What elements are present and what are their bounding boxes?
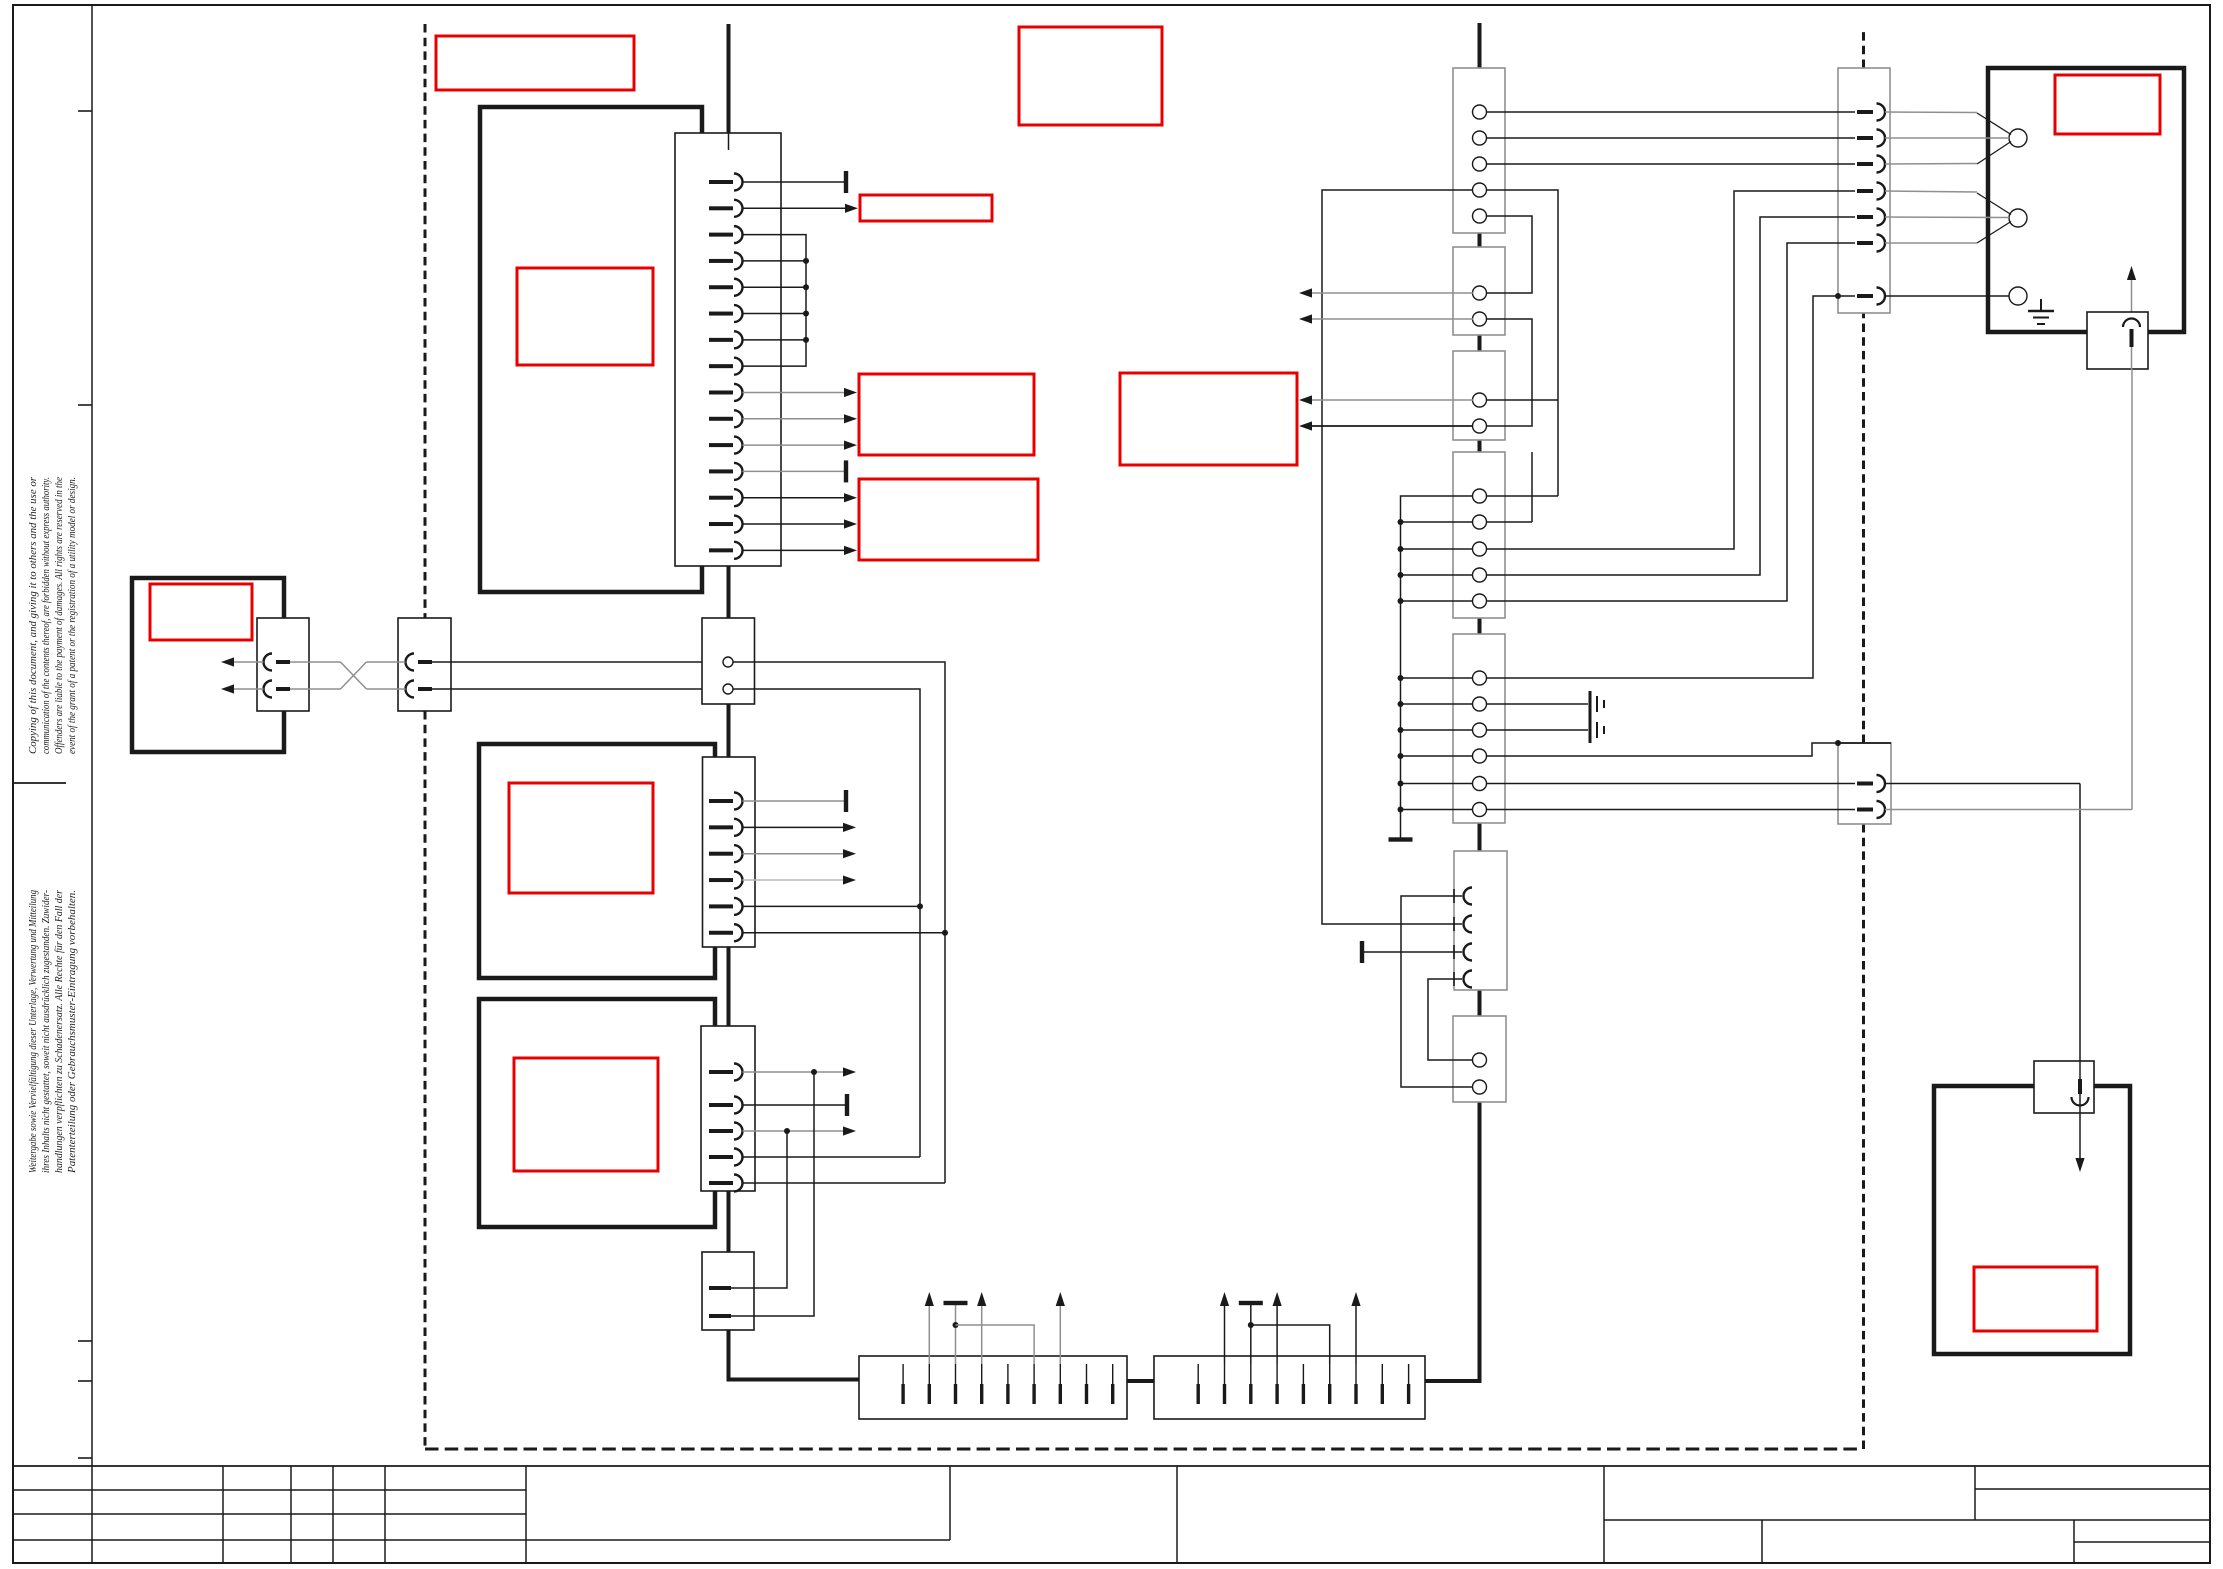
wire X8b pin2 to arrow <box>1307 318 1473 320</box>
device box B1 (left, with display) <box>132 578 284 752</box>
speaker unit box B10 (top right) <box>1988 68 2184 332</box>
connector X12 pins 1-2 <box>1857 775 1885 818</box>
wire X6 pin3 to terminal <box>955 1305 957 1364</box>
wire X9 pin4 to X10 pin1 <box>1428 979 1472 1060</box>
terminal bar X7 pin3 <box>1239 1301 1263 1305</box>
junction dot X8e pin6 <box>1398 807 1404 813</box>
sidebar divider line <box>91 5 93 1563</box>
wire X4 pin1 to arrow <box>743 1071 844 1073</box>
wire X8d pin3 to X11 pin4 <box>1401 191 1856 549</box>
arrow X4 pin3 <box>843 1126 856 1135</box>
wire X4 pin3 to arrow <box>743 1130 844 1132</box>
connector X8a body <box>1453 68 1505 233</box>
connector X1 pins 1-15 <box>709 174 743 559</box>
terminal bar X3 pin1 <box>844 790 848 812</box>
arrow X7 pin2 <box>1220 1292 1229 1306</box>
junction dot X4 pin3 <box>784 1128 790 1134</box>
wire W2 down <box>2131 347 2133 369</box>
wire X8c pin1 to arrow <box>1307 399 1473 401</box>
red highlight box at X1 pin2 <box>860 195 992 221</box>
junction dot X3 pin6 <box>942 930 948 936</box>
arrow into W1 <box>2075 1158 2084 1172</box>
wire X8e pin5 to X12 pin1 <box>1401 783 1856 785</box>
red highlight box (top left label) <box>436 36 634 90</box>
wire X2 pin2 right <box>733 689 920 1157</box>
junction dot X8e pin2 <box>1398 701 1404 707</box>
wire X3 pin1 to terminal <box>743 800 845 802</box>
wire X8c pin2 to arrow <box>1307 425 1473 427</box>
svg-text:ihres Inhalts nicht gestattet,: ihres Inhalts nicht gestattet, soweit ni… <box>41 890 52 1173</box>
arrow X3 pin3 <box>843 849 856 858</box>
connector X8c body <box>1453 351 1505 440</box>
antenna socket symbol W3 <box>2072 1079 2089 1106</box>
junction dots X1 bus <box>803 258 809 343</box>
sidebar tick mark y1458 <box>78 1457 92 1459</box>
wire X8e pin1 to X11 pin7 <box>1401 296 1856 678</box>
wire X1 pin12 to terminal <box>743 470 845 472</box>
junction dot X8e pin3 <box>1398 727 1404 733</box>
connector X8c pin circles <box>1473 393 1487 433</box>
connector X10 pin circles <box>1473 1053 1487 1094</box>
wire X11 pin5 stub <box>1885 216 2009 219</box>
wire X8a pin5 to X8b pin1 <box>1487 216 1533 293</box>
wire X3 pin4 to arrow <box>743 879 844 881</box>
connector X2a body (on B1) <box>257 618 309 711</box>
terminal bar X1 pin1 <box>844 171 848 193</box>
junction dot X4 pin1 <box>811 1069 817 1075</box>
bus wire from top into connector X1 <box>727 24 731 133</box>
bus wire X5 down to bottom strip X6 <box>729 1330 860 1380</box>
svg-text:Copying of this document, and: Copying of this document, and giving it … <box>28 477 39 754</box>
bus wire X1 to X2 <box>727 566 731 618</box>
arrow X1 pin11 <box>844 441 857 450</box>
junction dot X7 pin3 branch <box>1248 1322 1254 1328</box>
bus wire X8b-X8c <box>1478 335 1482 351</box>
connector X11 pins 1-7 <box>1857 104 1885 305</box>
arrow X7 pin7 <box>1351 1292 1360 1306</box>
wire X7 pin3 to terminal <box>1250 1305 1252 1364</box>
wire X8c pin1 right <box>1487 399 1559 401</box>
connector X8b pin circles <box>1473 286 1487 326</box>
connector X3 pins 1-6 <box>709 793 743 942</box>
wire X1 pin1 to terminal <box>743 181 845 183</box>
connector X11 body <box>1838 68 1890 313</box>
antenna unit box W1 (bottom right) <box>1934 1086 2130 1354</box>
device box A3 (middle left lower) <box>479 999 715 1227</box>
wire X8d pin4 to X11 pin5 <box>1401 217 1856 575</box>
bus wire X8c-X8d <box>1478 440 1482 452</box>
control unit box A1 (top left) <box>480 107 702 592</box>
wire X7 branch to pin6 <box>1251 1325 1330 1364</box>
junction dot X8d pin3 <box>1398 546 1404 552</box>
connector X3 body <box>703 757 756 947</box>
crossover wires X2a-X2b <box>290 662 406 689</box>
red highlight box at X1 pins13-15 <box>859 479 1038 560</box>
connector X9 pins 1-4 <box>1454 888 1472 988</box>
wire X5 pin2 <box>731 1072 814 1316</box>
wire X8e pin3 to earth <box>1401 729 1589 731</box>
wire X1 pin11 to arrow <box>743 444 846 446</box>
arrow X1 pin2 <box>845 204 858 213</box>
terminal bar X6 pin3 <box>944 1301 968 1305</box>
connector X5 pins <box>709 1286 731 1318</box>
antenna socket box W3 <box>2034 1061 2094 1113</box>
arrow at X8b pin2 <box>1299 314 1312 323</box>
junction dot X8e pin4 <box>1398 753 1404 759</box>
arrow at X8b pin1 <box>1299 288 1312 297</box>
arrow at X8c pin2 <box>1299 421 1312 430</box>
svg-text:Weitergabe sowie Vervielfältig: Weitergabe sowie Vervielfältigung dieser… <box>28 890 39 1173</box>
wire X11 pin4 stub <box>1885 191 1977 192</box>
connector X7 pins 1-9 <box>1198 1364 1408 1404</box>
arrow into B1 lower <box>221 684 234 693</box>
arrow X3 pin4 <box>843 875 856 884</box>
junction dot at X11 pin7 <box>1835 293 1841 299</box>
connector X8a pin circles <box>1473 105 1487 223</box>
junction dot X8d pin5 <box>1398 598 1404 604</box>
antenna feed arrow in B10 <box>2127 266 2136 316</box>
arrow X1 pin10 <box>844 414 857 423</box>
connector X2a pins <box>264 654 291 698</box>
bus wire X8a-X8b <box>1478 233 1482 247</box>
wire X3 pin2 to arrow <box>743 826 844 828</box>
wire loop X8a pin4 left branch <box>1322 190 1473 924</box>
connector X6 pins 1-9 <box>903 1364 1113 1404</box>
arrow X1 pin15 <box>844 546 857 555</box>
earth symbol upper <box>1590 691 1604 717</box>
wire X11 pin1 stub <box>1885 111 1977 114</box>
wire X7 pin7 up <box>1355 1306 1357 1364</box>
wire X8b pin1 to arrow <box>1307 292 1473 294</box>
red highlight box inside A2 <box>509 783 653 893</box>
wire X8b pin2 to X8c pin2 <box>1487 319 1533 426</box>
junction dot at X12 top <box>1835 740 1841 746</box>
connector X8b body <box>1453 247 1505 335</box>
sidebar text separator line <box>13 782 66 784</box>
wire X12 pin1 to W3 <box>1885 784 2080 1062</box>
wire X9 pin3 to terminal <box>1364 951 1462 953</box>
bus wire X8e-X9 <box>1478 823 1482 851</box>
wire X3 pin3 to arrow <box>743 853 844 855</box>
wire X1 pin10 to arrow <box>743 418 846 420</box>
connector X8e pin circles <box>1473 671 1487 817</box>
connector X2 pin circles <box>723 657 733 694</box>
dashed wiring-boundary box <box>425 24 1864 1449</box>
wire X8e pin4 to X12 top <box>1401 743 1839 756</box>
arrow X1 pin9 <box>844 388 857 397</box>
wire X1 pin14 to arrow <box>743 523 846 525</box>
bus wire X8d-X8e <box>1478 618 1482 634</box>
connector X8d body <box>1453 452 1505 618</box>
wire group X1 pins3-8 common bus <box>743 235 807 367</box>
arrow X7 pin4 <box>1273 1292 1282 1306</box>
wire X8e pin2 to earth <box>1401 703 1589 705</box>
antenna plug box W2 <box>2087 312 2148 369</box>
connector X8d pin circles <box>1473 489 1487 608</box>
bus wire X2 to X3 <box>727 704 731 758</box>
wire X11 pin6 stub <box>1885 242 1977 244</box>
connector X2 body (on bus) <box>702 618 755 704</box>
wire X4 pin2 to terminal <box>743 1104 846 1106</box>
connector X5 body <box>702 1252 754 1330</box>
arrow X1 pin14 <box>844 519 857 528</box>
connector X7 body <box>1154 1356 1425 1419</box>
svg-text:handlungen verpflichten zu Sch: handlungen verpflichten zu Schadenersatz… <box>54 890 65 1173</box>
sidebar tick mark y405 <box>78 404 92 406</box>
wire loop X8a pin4 right branch <box>1487 190 1559 496</box>
antenna plug symbol W2 <box>2123 319 2140 348</box>
device box A2 (middle left upper) <box>479 744 715 978</box>
speaker symbol LS1 <box>1977 113 2027 164</box>
junction dot X8d pin4 <box>1398 572 1404 578</box>
wire X1 pin2 to arrow <box>743 207 846 209</box>
wire X7 pin4 up <box>1276 1306 1278 1364</box>
speaker symbol LS2 <box>1977 193 2027 243</box>
red highlight box inside A1 <box>517 268 653 365</box>
connector X1 body <box>675 133 781 566</box>
junction dot X6 pin3 branch <box>953 1322 959 1328</box>
sidebar tick mark y1381 <box>78 1380 92 1382</box>
connector X6 body <box>859 1356 1127 1419</box>
wire X6 pin7 up <box>1059 1306 1061 1364</box>
wire X6 branch to pin6 <box>956 1325 1035 1364</box>
junction dot X3 pin5 <box>917 903 923 909</box>
wire X8e pin6 to X12 pin2 <box>1401 809 1856 811</box>
wire X11 pin2 stub <box>1885 137 2009 139</box>
connector X8e body <box>1453 634 1505 823</box>
connector X4 pins 1-5 <box>709 1064 743 1192</box>
wire X1 pin15 to arrow <box>743 549 846 551</box>
red highlight box inside W1 <box>1974 1267 2097 1331</box>
wire arrows to X2a <box>234 662 264 689</box>
arrow X4 pin1 <box>843 1067 856 1076</box>
red highlight box inside A3 <box>514 1058 658 1171</box>
wire X11 pin3 stub <box>1885 163 1977 166</box>
terminal bar X1 pin12 <box>844 460 848 482</box>
junction dot X8e pin1 <box>1398 675 1404 681</box>
bus wire strip X7 up to connector X10 <box>1425 1102 1480 1381</box>
wire X8a pin1 to X11 pin1 <box>1487 111 1856 113</box>
wire X1 pin9 to arrow <box>743 391 846 393</box>
wire X4 pin5 <box>743 1182 946 1184</box>
svg-text:communication of the contents: communication of the contents thereof, a… <box>41 477 52 754</box>
sidebar copyright notice (english) <box>28 477 78 754</box>
wire X8d pin5 to X11 pin6 <box>1401 243 1856 601</box>
red highlight box at X1 pins9-11 <box>859 374 1034 455</box>
bus wire X4 to X5 <box>727 1191 731 1252</box>
ground symbol in B10 <box>2028 299 2054 324</box>
wire X11 pin7 to ground <box>1885 295 2009 297</box>
ground pin circle <box>2009 287 2027 305</box>
junction dot X8e pin5 <box>1398 781 1404 787</box>
arrow X6 pin4 <box>977 1292 986 1306</box>
bus wire between strips X6 X7 <box>1127 1379 1154 1383</box>
wire X2 pin1 right <box>733 662 945 1183</box>
svg-text:event of the grant of a patent: event of the grant of a patent or the re… <box>67 477 78 754</box>
junction dot X8d pin2 <box>1398 519 1404 525</box>
wire X9 pin1 <box>1401 896 1472 1087</box>
red highlight box left of X8 <box>1120 373 1297 465</box>
connector X2b pins <box>406 654 433 698</box>
wire X4 pin4 <box>743 1156 921 1158</box>
arrow X6 pin7 <box>1056 1292 1065 1306</box>
wire X2b pin1 to X2 <box>432 661 723 663</box>
connector X12 body <box>1838 743 1891 824</box>
connector X9 body <box>1454 851 1507 990</box>
connector X2b body (on boundary) <box>398 618 451 711</box>
terminal bar X9 pin3 <box>1360 941 1364 963</box>
wire X6 pin2 up <box>928 1306 930 1364</box>
svg-text:Offenders are liable to the pa: Offenders are liable to the payment of d… <box>54 477 65 754</box>
arrow X6 pin2 <box>925 1292 934 1306</box>
wire W3 into W1 <box>2079 1061 2081 1158</box>
wire X8d pin2 <box>1401 452 1533 522</box>
red highlight box (top middle label) <box>1019 27 1162 125</box>
terminal bar X4 pin2 <box>845 1094 849 1116</box>
wire X7 pin2 up <box>1224 1306 1226 1364</box>
wire X8a pin3 to X11 pin3 <box>1487 163 1856 165</box>
wire X8d pin1 <box>1401 496 1559 838</box>
svg-text:Patenterteilung oder Gebrauchs: Patenterteilung oder Gebrauchsmuster-Ein… <box>67 890 78 1174</box>
sidebar copyright notice (german) <box>28 890 78 1174</box>
arrow into B1 upper <box>221 657 234 666</box>
red highlight box inside B10 <box>2055 75 2160 134</box>
bus wire from top into connector X8 <box>1478 23 1482 68</box>
wire X1 pin13 to arrow <box>743 497 846 499</box>
wire X8a pin2 to X11 pin2 <box>1487 137 1856 139</box>
wire X2b pin2 to X2 <box>432 688 723 690</box>
connector X10 body <box>1453 1016 1506 1102</box>
bus wire X3 to X4 <box>727 947 731 1026</box>
earth symbol lower <box>1590 717 1604 743</box>
arrow X1 pin13 <box>844 493 857 502</box>
arrow at X8c pin1 <box>1299 395 1312 404</box>
wire X6 pin4 up <box>981 1306 983 1364</box>
bus wire X9-X10 <box>1478 990 1482 1016</box>
wire X3 pin5 <box>743 905 921 907</box>
sidebar tick mark y111 <box>78 110 92 112</box>
wire X3 pin6 <box>743 932 946 934</box>
title block table <box>13 1466 2210 1563</box>
sidebar tick mark y1341 <box>78 1340 92 1342</box>
arrow X3 pin2 <box>843 823 856 832</box>
red highlight box inside B1 <box>150 584 252 640</box>
wire X12 pin2 to W2 <box>1885 369 2132 810</box>
connector X4 body <box>701 1026 755 1191</box>
ground bar on bus <box>1389 837 1413 841</box>
wire X5 pin1 <box>731 1131 787 1288</box>
